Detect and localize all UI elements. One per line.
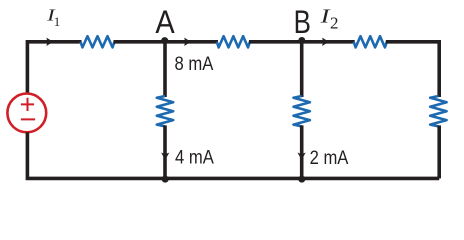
resistor R1 bbox=[81, 36, 115, 47]
current arrow for I1 bbox=[46, 38, 53, 46]
resistor R6 (branch at B) bbox=[294, 96, 310, 126]
junction dot: branch B at bottom rail bbox=[298, 176, 305, 183]
current arrow for 2 mA bbox=[298, 153, 306, 161]
resistor R4 (right branch) bbox=[430, 96, 446, 126]
wire: node B down to R6 bbox=[300, 42, 304, 97]
wire: R5 down to bottom rail bbox=[163, 125, 167, 178]
svg-text:2 mA: 2 mA bbox=[310, 147, 349, 169]
current arrow for 4 mA bbox=[161, 153, 169, 161]
svg-text:8 mA: 8 mA bbox=[175, 53, 214, 75]
wire: R6 down to bottom rail bbox=[300, 125, 304, 178]
wire: top-left corner, voltage source up to resistor R1 bbox=[27, 42, 81, 94]
current arrow for 8 mA bbox=[184, 38, 191, 46]
svg-text:A: A bbox=[155, 4, 175, 40]
node B junction dot bbox=[298, 37, 305, 44]
junction dot: branch A at bottom rail bbox=[162, 176, 169, 183]
wire: R1 to R2 through node A bbox=[114, 40, 219, 44]
svg-text:4 mA: 4 mA bbox=[175, 147, 214, 169]
resistor R2 bbox=[217, 36, 250, 47]
resistor R3 bbox=[354, 36, 387, 47]
wire: node A down to R5 bbox=[163, 42, 167, 97]
wire: R4 to bottom-right corner bbox=[437, 125, 441, 178]
wire: voltage source to bottom-left corner and bottom rail bbox=[27, 132, 439, 178]
wire: R3 to top-right corner down to R4 bbox=[386, 42, 439, 97]
svg-text:1: 1 bbox=[54, 14, 61, 29]
current arrow for I2 bbox=[322, 38, 329, 46]
node A junction dot bbox=[161, 37, 168, 44]
svg-text:2: 2 bbox=[330, 14, 339, 33]
label I2 bbox=[319, 7, 338, 33]
label I1 bbox=[46, 6, 60, 29]
voltage source V1 bbox=[7, 94, 46, 133]
resistor R5 (branch at A) bbox=[157, 96, 173, 126]
wire: R2 to R3 through node B bbox=[249, 40, 355, 44]
svg-text:B: B bbox=[294, 4, 311, 40]
